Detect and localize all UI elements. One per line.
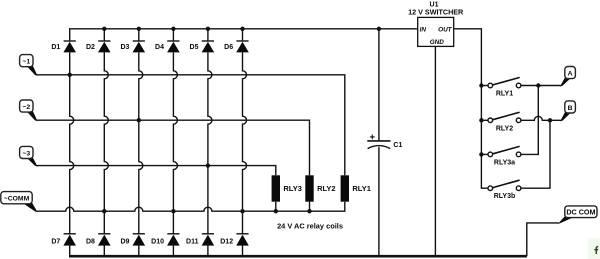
wire bottom stub D11 anode to DC bus [207,246,209,257]
wire top stub D2 cathode to top bus [103,29,105,41]
diode D5 [202,40,214,42]
wire DC COM terminal to DC bus [527,223,559,256]
svg-text:D5: D5 [190,44,199,51]
node ~COMM junction RLY3 coil [274,209,278,213]
wire bottom stub D12 anode to DC bus [242,246,244,257]
diode D1 [64,40,76,42]
svg-text:RLY3b: RLY3b [494,193,516,200]
wire 12V bus stub to RLY1 common [481,85,488,87]
diode D8 [98,233,110,235]
svg-text:D3: D3 [120,44,129,51]
relay switch contact RLY1 [488,78,521,98]
svg-text:RLY2: RLY2 [317,184,335,193]
wire top stub D6 cathode to top bus [242,29,244,41]
svg-text:D4: D4 [155,44,164,51]
terminal A [560,67,575,87]
svg-text:~3: ~3 [22,150,30,157]
node B (RLY2/RLY3b outputs) [548,118,552,122]
node top bus junction col 5 [206,27,210,31]
terminal B [560,101,575,122]
wire column 5 (D5 anode to D11 cathode) [208,52,212,233]
node top bus junction C1 column [377,27,381,31]
node A (RLY1/RLY3a outputs) [536,83,540,87]
wire bottom stub D8 anode to DC bus [103,246,105,257]
node row ~COMM junction col 2 [102,209,106,213]
wire top stub D3 cathode to top bus [138,29,140,41]
diode D4 [167,40,179,42]
node top bus junction col 4 [171,27,175,31]
svg-text:RLY2: RLY2 [496,125,513,132]
relay coil RLY1 [341,175,349,201]
diode D2 [98,40,110,42]
wire bottom stub D10 anode to DC bus [172,246,174,257]
wire U1 GND to DC bus [434,46,436,256]
svg-text:DC COM: DC COM [566,207,595,216]
svg-text:D7: D7 [51,238,60,245]
wire row ~COMM to coil commons [37,202,345,212]
wire bottom stub D7 anode to DC bus [69,246,71,257]
relay switch contact RLY2 [488,112,521,132]
node 12V bus junction RLY1 [479,83,483,87]
node 12V bus junction RLY3a [479,152,483,156]
relay coil RLY3 [272,175,280,201]
relay switch contact RLY3b [488,180,521,200]
diode D10 [167,233,179,235]
wire U1 OUT to 12V switch bus [454,29,488,188]
svg-text:A: A [568,70,573,77]
svg-text:RLY1: RLY1 [352,184,370,193]
svg-text:~2: ~2 [22,104,30,111]
svg-text:B: B [568,105,573,112]
node top bus junction col 6 [240,27,244,31]
svg-text:GND: GND [430,39,445,46]
wire RLY2 coil bottom stub [309,202,311,212]
svg-text:D2: D2 [86,44,95,51]
svg-text:24 V AC relay coils: 24 V AC relay coils [277,222,343,231]
svg-text:D1: D1 [51,44,60,51]
svg-text:D6: D6 [224,44,233,51]
node row ~1 junction col 1 [68,73,72,77]
svg-text:D9: D9 [120,238,129,245]
svg-text:RLY3a: RLY3a [494,159,515,166]
svg-text:D10: D10 [151,238,164,245]
svg-text:~1: ~1 [22,59,30,66]
node ~COMM junction RLY2 coil [307,209,311,213]
wire column 6 (D6 anode to D12 cathode) [243,52,247,233]
terminal ~COMM [1,192,38,213]
wire RLY3 coil bottom stub [275,202,277,212]
terminal ~2 [20,100,38,121]
op U1 12 V switcher box [408,2,464,47]
terminal ~1 [20,55,38,76]
diode D12 [236,233,248,235]
svg-text:OUT: OUT [438,26,453,33]
relay coil RLY2 [305,175,313,201]
watermark f (green) [588,238,600,259]
wire C1 top (top bus to C1) [378,29,380,141]
node top bus junction col 2 [102,27,106,31]
svg-text:RLY3: RLY3 [283,184,301,193]
wire row ~1 to RLY1 coil [37,75,345,176]
wire RLY2 output to terminal B [521,116,561,120]
svg-text:D8: D8 [86,238,95,245]
node row ~3 junction col 5 [206,163,210,167]
svg-text:RLY1: RLY1 [496,91,513,98]
node row ~COMM junction col 4 [171,209,175,213]
wire top bus (+DC rail from diode cathodes to U1 IN) [70,29,418,41]
svg-text:D12: D12 [220,238,233,245]
wire bottom stub D9 anode to DC bus [138,246,140,257]
wire top stub D4 cathode to top bus [172,29,174,41]
svg-text:IN: IN [420,26,427,33]
node row ~2 junction col 3 [137,118,141,122]
diode D6 [236,40,248,42]
diode D3 [133,40,145,42]
diode D11 [202,233,214,235]
svg-text:D11: D11 [186,238,199,245]
diode D7 [64,233,76,235]
terminal DC COM [558,206,597,224]
wire 12V bus stub to RLY3a common [481,153,488,155]
capacitor C1 [367,140,390,142]
node top bus junction col 3 [137,27,141,31]
node row ~COMM junction col 6 [240,209,244,213]
wire column 2 (D2 anode to D8 cathode) [104,52,108,233]
wire column 4 (D4 anode to D10 cathode) [173,52,177,233]
wire RLY3b output up to node B [521,120,550,188]
wire column 1 (D1 anode to D7 cathode) [70,52,74,233]
wire row ~2 to RLY2 coil [37,120,310,175]
relay switch contact RLY3a [488,147,521,167]
svg-text:12 V SWITCHER: 12 V SWITCHER [408,7,464,16]
wire row ~3 to RLY3 coil [37,166,276,176]
svg-text:~COMM: ~COMM [4,196,30,203]
diode D9 [133,233,145,235]
wire DC COM bottom bus (thick) [69,255,527,258]
wire RLY1 output to terminal A [521,85,561,87]
terminal ~3 [20,146,38,166]
node 12V bus junction RLY2 [479,118,483,122]
wire top stub D5 cathode to top bus [207,29,209,41]
wire C1 bottom (C1 to DC bus) [378,147,380,256]
wire RLY3a output up to node A [521,86,538,155]
svg-text:C1: C1 [393,142,402,149]
wire 12V bus stub to RLY2 common [481,119,488,121]
wire column 3 (D3 anode to D9 cathode) [139,52,143,233]
